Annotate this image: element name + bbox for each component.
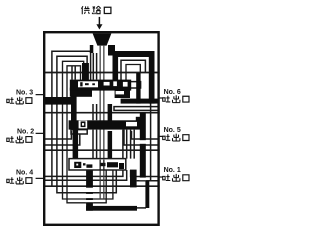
svg-text:No. 3: No. 3 (16, 89, 33, 96)
svg-text:No. 6: No. 6 (164, 89, 181, 96)
svg-text:No. 1: No. 1 (164, 167, 181, 174)
svg-text:No. 4: No. 4 (16, 170, 33, 177)
svg-text:No. 5: No. 5 (164, 127, 181, 134)
svg-text:No. 2: No. 2 (17, 128, 34, 135)
